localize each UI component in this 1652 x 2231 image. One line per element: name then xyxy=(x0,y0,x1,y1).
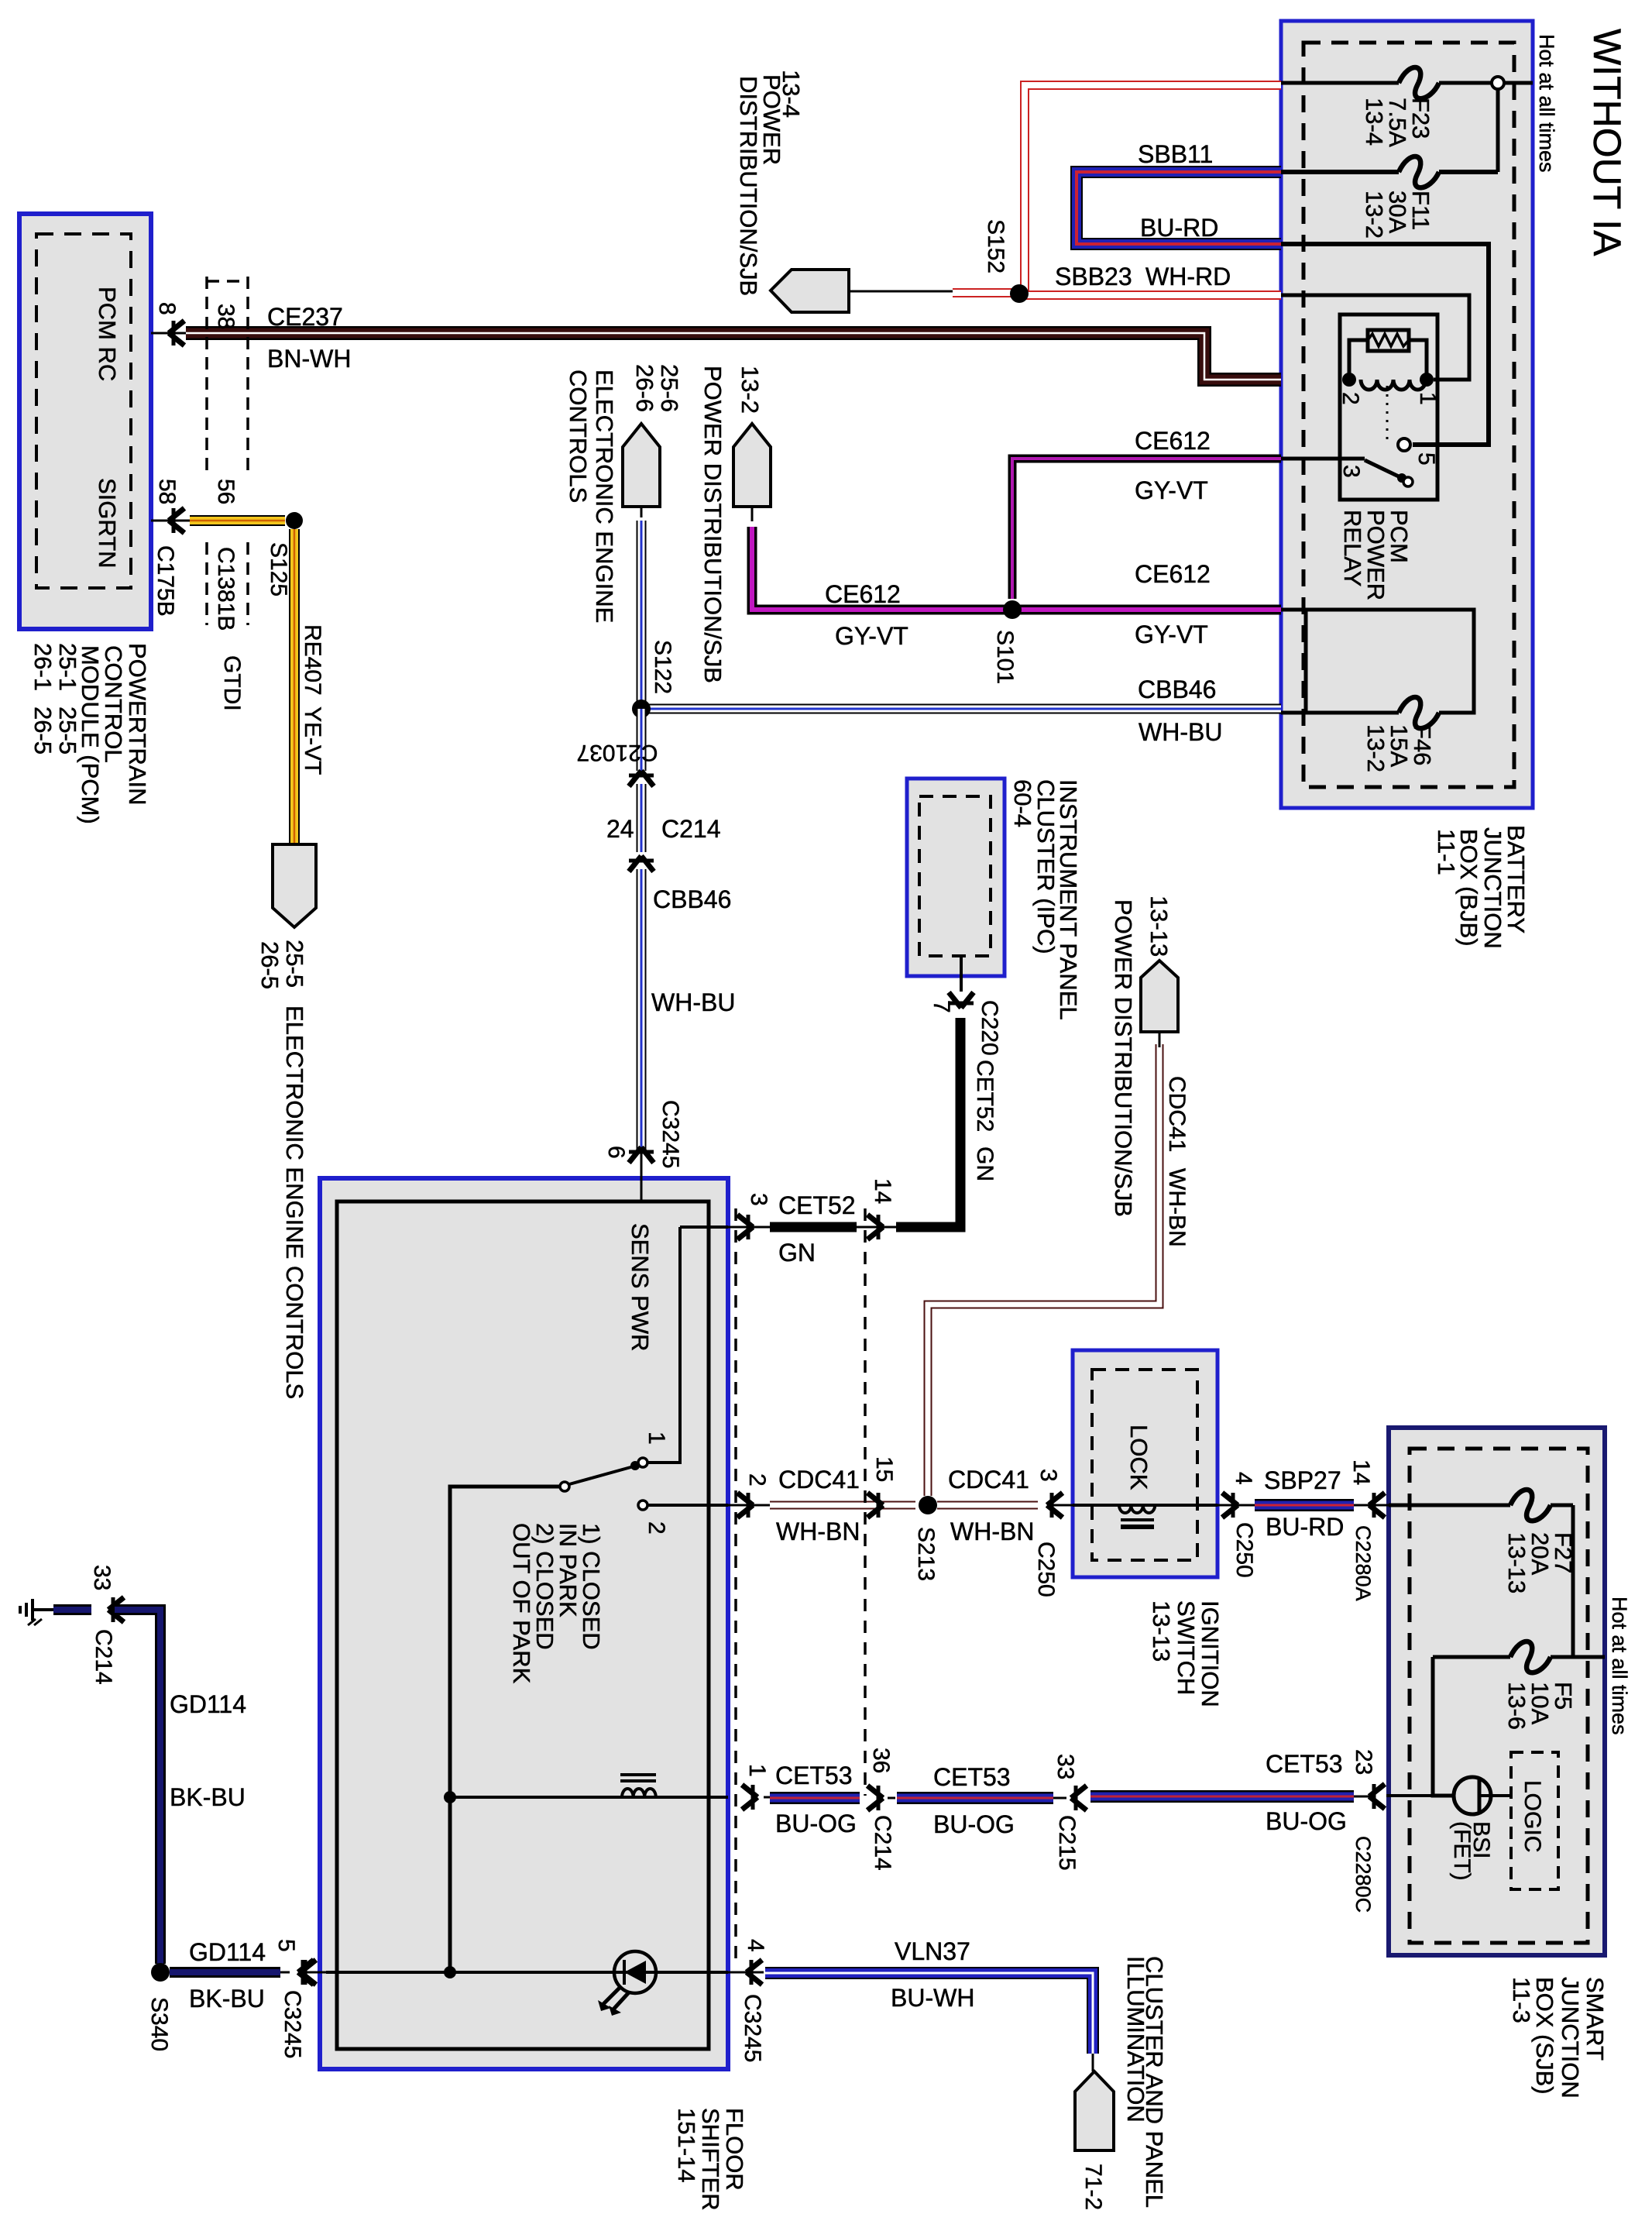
svg-text:25-5: 25-5 xyxy=(54,706,81,755)
svg-text:LOCK: LOCK xyxy=(1125,1425,1152,1490)
svg-text:SBB11: SBB11 xyxy=(1138,140,1213,168)
svg-text:14: 14 xyxy=(870,1178,895,1204)
svg-text:SWITCH: SWITCH xyxy=(1173,1600,1200,1695)
connector arrow C214 pin 33 (GD114) xyxy=(108,1597,124,1622)
LOGIC dashed box xyxy=(1511,1752,1558,1889)
instrument panel cluster box xyxy=(907,779,1005,976)
wire CE237 BN-WH xyxy=(186,333,1281,380)
wire F27 row xyxy=(1389,1504,1510,1507)
connector arrow C2280A pin 14 xyxy=(1354,1504,1369,1507)
wire lock pin4 pilot xyxy=(1218,1504,1255,1507)
wire relay pin5 feed xyxy=(1281,244,1489,445)
svg-text:CBB46: CBB46 xyxy=(1138,675,1216,703)
svg-text:CBB46: CBB46 xyxy=(653,885,731,913)
wire EEC arrow to S122 xyxy=(641,507,643,517)
connector arrow C215 pin 33 xyxy=(1071,1786,1087,1810)
svg-text:13-2: 13-2 xyxy=(1362,724,1389,772)
svg-text:GTDI: GTDI xyxy=(219,655,245,711)
svg-text:60-4: 60-4 xyxy=(1009,779,1036,827)
offpage arrow 71-2 xyxy=(1075,2071,1114,2150)
svg-text:3: 3 xyxy=(1338,465,1364,478)
wire G201 stub xyxy=(53,1604,91,1615)
SJB dashed inner box xyxy=(1410,1449,1588,1943)
connector arrow C250 pin 4 xyxy=(1222,1493,1238,1518)
svg-text:25-1: 25-1 xyxy=(54,643,81,691)
svg-text:RELAY: RELAY xyxy=(1339,510,1366,586)
offpage arrow 13-2 xyxy=(733,424,771,507)
wire CDC41 riser to 13-13 xyxy=(928,1044,1159,1496)
svg-text:BU-RD: BU-RD xyxy=(1266,1513,1344,1541)
svg-text:6: 6 xyxy=(603,1146,629,1159)
svg-text:25-6: 25-6 xyxy=(656,364,683,412)
svg-text:5: 5 xyxy=(1413,452,1439,466)
svg-text:CET53: CET53 xyxy=(1266,1750,1343,1778)
wire shifter pin 2 xyxy=(647,1504,728,1507)
svg-text:C214: C214 xyxy=(661,815,721,843)
wire CBB46 WH-BU horizontal xyxy=(642,704,1281,714)
smart junction box SJB xyxy=(1389,1428,1605,1955)
connector arrow C21037 xyxy=(629,771,654,786)
relay armature dotted link xyxy=(1386,386,1389,442)
svg-text:13-13: 13-13 xyxy=(1503,1532,1530,1593)
svg-text:GD114: GD114 xyxy=(189,1938,266,1966)
svg-text:C214: C214 xyxy=(91,1629,116,1685)
connector arrow C250 pin 3 xyxy=(1047,1493,1063,1518)
connector arrow CDC41 pin 15 xyxy=(867,1493,883,1518)
connector arrow C2280C pin 23 xyxy=(1354,1796,1369,1798)
svg-text:CET53: CET53 xyxy=(933,1763,1011,1791)
svg-text:VLN37: VLN37 xyxy=(895,1937,970,1965)
junction S152 xyxy=(1010,284,1029,303)
svg-text:CDC41: CDC41 xyxy=(1164,1076,1190,1152)
wire F23-F11 link xyxy=(1496,89,1500,172)
svg-text:WH-BU: WH-BU xyxy=(1139,718,1222,746)
wire WH-BU vertical xyxy=(637,709,647,771)
wire SBB11 BU-RD xyxy=(1077,172,1281,244)
svg-text:IGNITION: IGNITION xyxy=(1197,1600,1224,1707)
svg-text:GN: GN xyxy=(972,1146,998,1181)
svg-text:2: 2 xyxy=(1338,392,1363,405)
svg-text:PCM RC: PCM RC xyxy=(94,287,121,381)
wire VLN37 tail xyxy=(1092,2054,1094,2071)
svg-text:33: 33 xyxy=(1053,1754,1078,1779)
svg-text:13-13: 13-13 xyxy=(1148,1600,1175,1662)
svg-text:CDC41: CDC41 xyxy=(778,1466,860,1494)
wire shifter pin2 pilot xyxy=(728,1504,770,1507)
svg-text:BK-BU: BK-BU xyxy=(189,1985,265,2013)
svg-text:C21037: C21037 xyxy=(576,740,658,765)
fuse F27 20A xyxy=(1510,1490,1551,1521)
connector C1381B dashed xyxy=(205,277,208,470)
wire resistor leads xyxy=(1349,340,1368,380)
junction S122 xyxy=(632,700,651,718)
svg-text:C215: C215 xyxy=(1054,1815,1080,1871)
svg-text:ILLUMINATION: ILLUMINATION xyxy=(1122,1956,1149,2123)
svg-text:26-6: 26-6 xyxy=(631,364,658,412)
switch blade xyxy=(569,1466,634,1484)
wire CET53 pilot lines xyxy=(764,1796,770,1799)
switch pole xyxy=(560,1482,569,1491)
svg-text:58: 58 xyxy=(154,479,180,504)
offpage arrow 13-4 xyxy=(771,270,849,312)
svg-text:25-5: 25-5 xyxy=(281,940,308,988)
svg-text:WH-BN: WH-BN xyxy=(950,1518,1034,1545)
relay coil xyxy=(1361,380,1426,390)
wire F5 row xyxy=(1433,1655,1510,1659)
floor shifter inner box xyxy=(337,1201,709,2049)
connector arrow C3245 pin 4 (VLN37) xyxy=(747,1960,762,1985)
wire VLN37 pilot xyxy=(728,1971,764,1974)
svg-text:26-5: 26-5 xyxy=(256,941,283,989)
wire CET52 GN segment 2 xyxy=(896,1018,960,1227)
wire CE612 upper xyxy=(1012,459,1281,599)
fuse F46 15A xyxy=(1399,697,1439,728)
svg-text:FLOOR: FLOOR xyxy=(721,2108,748,2191)
wire CET53 segment 3 xyxy=(1090,1790,1354,1803)
svg-text:36: 36 xyxy=(868,1748,894,1773)
BJB dashed inner box xyxy=(1303,43,1514,787)
svg-text:POWER DISTRIBUTION/SJB: POWER DISTRIBUTION/SJB xyxy=(699,366,726,683)
wire switch pole to lamp bus xyxy=(450,1487,560,1972)
connector arrow C214 pin 36 xyxy=(867,1786,883,1810)
fuse F23 7.5A xyxy=(1399,67,1439,98)
svg-text:56: 56 xyxy=(213,479,239,504)
svg-text:WH-RD: WH-RD xyxy=(1145,263,1231,290)
connector arrow C214 pin 24 xyxy=(629,856,654,871)
svg-text:BU-RD: BU-RD xyxy=(1140,214,1218,242)
svg-text:13-6: 13-6 xyxy=(1503,1682,1530,1730)
svg-text:23: 23 xyxy=(1351,1749,1376,1775)
svg-text:ELECTRONIC ENGINE: ELECTRONIC ENGINE xyxy=(591,370,618,623)
svg-text:POWERTRAIN: POWERTRAIN xyxy=(124,643,151,806)
shifter coil xyxy=(622,1789,656,1797)
connector arrow C220 pin 7 xyxy=(949,992,974,1008)
IPC dashed inner box xyxy=(919,796,991,956)
fuse F11 30A xyxy=(1399,156,1439,187)
svg-text:71-2: 71-2 xyxy=(1080,2164,1106,2210)
svg-text:C2280A: C2280A xyxy=(1351,1525,1375,1601)
wire VLN37 BU-WH xyxy=(765,1973,1093,2054)
terminal circle F23 output xyxy=(1492,77,1504,89)
wire RE407 YE-VT xyxy=(190,515,285,526)
wire shifter LED row xyxy=(326,1971,728,1974)
wire SBB23 WH-RD xyxy=(953,288,1019,297)
svg-text:13-13: 13-13 xyxy=(1145,895,1173,957)
junction S125 xyxy=(286,512,303,529)
svg-text:CET52: CET52 xyxy=(778,1191,856,1219)
svg-text:BU-OG: BU-OG xyxy=(1266,1807,1347,1835)
svg-text:SBP27: SBP27 xyxy=(1264,1466,1341,1494)
svg-text:OUT OF PARK: OUT OF PARK xyxy=(508,1523,535,1684)
svg-text:151-14: 151-14 xyxy=(673,2108,700,2183)
wire relay pin1 feed SBB23 xyxy=(1281,295,1469,380)
svg-text:BN-WH: BN-WH xyxy=(267,345,351,373)
svg-text:C214: C214 xyxy=(870,1815,895,1871)
connector arrow C220 pin 14 (CET52) xyxy=(867,1215,883,1239)
svg-text:2: 2 xyxy=(744,1473,770,1487)
svg-text:C3245: C3245 xyxy=(280,1990,305,2058)
wire CDC41 WH-BN left xyxy=(770,1501,915,1510)
F46 circuit rectangle xyxy=(1281,610,1474,713)
svg-text:11-3: 11-3 xyxy=(1508,1977,1535,2023)
svg-text:C220: C220 xyxy=(977,1000,1002,1056)
connector arrow shifter pin 3 xyxy=(737,1215,753,1239)
wire CET53 segment 1 xyxy=(770,1792,860,1804)
svg-text:GY-VT: GY-VT xyxy=(835,622,908,650)
wire IPC pin 7 lead xyxy=(960,956,963,992)
offpage arrow 25-5 26-5 xyxy=(273,844,316,927)
svg-text:GY-VT: GY-VT xyxy=(1135,620,1208,648)
svg-text:(FET): (FET) xyxy=(1449,1821,1475,1881)
svg-text:13-2: 13-2 xyxy=(737,366,764,414)
svg-text:JUNCTION: JUNCTION xyxy=(1557,1977,1584,2099)
svg-text:38: 38 xyxy=(213,304,239,329)
svg-text:CE612: CE612 xyxy=(825,580,901,608)
svg-text:GD114: GD114 xyxy=(170,1690,246,1718)
svg-text:3: 3 xyxy=(1036,1469,1061,1482)
svg-text:ELECTRONIC ENGINE CONTROLS: ELECTRONIC ENGINE CONTROLS xyxy=(281,1005,308,1399)
svg-text:WH-BN: WH-BN xyxy=(776,1518,860,1545)
svg-text:WH-BU: WH-BU xyxy=(651,988,735,1016)
ground G201 xyxy=(33,1608,53,1611)
connector arrow PCM pin 58 xyxy=(151,520,190,522)
wire CET52 thin pilot xyxy=(728,1226,770,1229)
wire arrow to S152 xyxy=(849,290,953,293)
svg-text:SENS PWR: SENS PWR xyxy=(627,1223,654,1351)
svg-text:BU-WH: BU-WH xyxy=(891,1984,974,2012)
fuse F5 10A xyxy=(1510,1641,1551,1672)
wire shifter coil row xyxy=(450,1796,728,1799)
svg-text:8: 8 xyxy=(154,302,180,315)
wire pin 6 into shifter xyxy=(641,1147,643,1203)
svg-text:C250: C250 xyxy=(1033,1542,1059,1597)
svg-text:1: 1 xyxy=(1415,392,1441,405)
svg-text:POWER DISTRIBUTION/SJB: POWER DISTRIBUTION/SJB xyxy=(1110,899,1137,1217)
wire F5 to BSI xyxy=(1433,1657,1455,1796)
svg-text:CET52: CET52 xyxy=(972,1060,998,1132)
junction S101 xyxy=(1003,600,1022,619)
junction LED tap xyxy=(444,1966,456,1978)
connector arrow CDC41 pin 2 xyxy=(737,1493,753,1518)
svg-text:2: 2 xyxy=(644,1521,669,1535)
connector arrow coil pin 1 xyxy=(742,1785,757,1810)
svg-text:Hot at all times: Hot at all times xyxy=(1535,34,1558,173)
svg-text:BU-OG: BU-OG xyxy=(933,1810,1015,1838)
wire relay pin 3 xyxy=(1281,457,1365,461)
svg-text:YE-VT: YE-VT xyxy=(300,706,325,775)
svg-text:C3245: C3245 xyxy=(658,1100,683,1168)
offpage arrow 25-6 26-6 EEC xyxy=(623,424,660,507)
svg-text:4: 4 xyxy=(743,1939,768,1952)
wire SBP27 BU-RD xyxy=(1255,1499,1354,1511)
svg-text:CONTROLS: CONTROLS xyxy=(565,370,592,503)
wire GD114 bottom run xyxy=(170,1967,280,1978)
relay pin 5 contact xyxy=(1398,438,1410,451)
svg-text:26-1: 26-1 xyxy=(29,643,57,691)
svg-text:BK-BU: BK-BU xyxy=(170,1783,246,1811)
svg-text:7: 7 xyxy=(929,1000,954,1013)
svg-text:SMART: SMART xyxy=(1582,1977,1609,2061)
svg-text:C175B: C175B xyxy=(153,545,178,617)
wire CET53 into SJB xyxy=(1386,1794,1433,1797)
wire SENS PWR net xyxy=(680,1226,728,1229)
PCM module box xyxy=(19,214,151,629)
svg-text:13-2: 13-2 xyxy=(1361,191,1388,239)
relay box xyxy=(1340,315,1437,500)
svg-text:BU-OG: BU-OG xyxy=(775,1810,857,1837)
svg-text:GY-VT: GY-VT xyxy=(1135,476,1208,504)
junction S340 xyxy=(151,1963,170,1982)
transistor BSI FET xyxy=(1454,1777,1491,1814)
LOCK dashed inner box xyxy=(1092,1370,1197,1560)
junction coil tap xyxy=(444,1791,456,1803)
connector arrow C3245 pin 6 xyxy=(629,1147,654,1163)
svg-text:S340: S340 xyxy=(146,1997,172,2051)
junction relay pin 2 xyxy=(1342,373,1356,387)
wire 13-13 arrow tail xyxy=(1159,1032,1161,1047)
svg-text:1: 1 xyxy=(744,1764,770,1777)
wire CET53 segment 2 xyxy=(897,1792,1053,1804)
svg-text:CE237: CE237 xyxy=(267,303,343,331)
junction relay pin 1 xyxy=(1420,373,1434,387)
svg-text:CE612: CE612 xyxy=(1135,560,1211,588)
svg-text:S213: S213 xyxy=(913,1527,939,1581)
svg-text:4: 4 xyxy=(1231,1472,1256,1485)
svg-text:GN: GN xyxy=(778,1239,816,1267)
wire F23 row xyxy=(1281,81,1399,85)
junction S213 xyxy=(919,1496,937,1514)
LED lamp xyxy=(614,1951,656,1993)
svg-text:14: 14 xyxy=(1348,1459,1374,1485)
wire SJB hot bus xyxy=(1571,1505,1575,1657)
wire F11 row xyxy=(1281,170,1399,174)
svg-text:3: 3 xyxy=(746,1193,771,1206)
PCM dashed inner box xyxy=(36,234,131,588)
relay switch blade xyxy=(1365,460,1402,478)
svg-text:C1381B: C1381B xyxy=(213,547,239,631)
resistor in relay xyxy=(1368,330,1409,351)
connector arrow PCM pin 8 xyxy=(151,332,186,335)
switch contact 2 xyxy=(638,1501,647,1510)
svg-text:CDC41: CDC41 xyxy=(948,1466,1029,1494)
svg-text:CE612: CE612 xyxy=(1135,427,1211,455)
svg-text:C250: C250 xyxy=(1231,1522,1257,1578)
wire CET52 GN segment 1 xyxy=(770,1222,857,1232)
connector C3245 dashed line xyxy=(734,1208,737,1968)
connector arrow shifter pin 5 xyxy=(298,1960,314,1985)
battery junction box BJB xyxy=(1281,21,1533,808)
ignition lock box xyxy=(1073,1350,1218,1577)
svg-text:11-1: 11-1 xyxy=(1433,829,1460,875)
svg-text:Hot at all times: Hot at all times xyxy=(1608,1597,1631,1735)
svg-text:1: 1 xyxy=(644,1432,669,1445)
svg-text:33: 33 xyxy=(89,1565,115,1590)
svg-text:WITHOUT IA: WITHOUT IA xyxy=(1585,29,1629,256)
connector arrow C3245 pin 5 xyxy=(280,1971,290,1974)
switch contact 1 xyxy=(638,1458,647,1467)
svg-text:S122: S122 xyxy=(650,640,675,694)
svg-text:SHIFTER: SHIFTER xyxy=(697,2108,724,2211)
wire CDC41 WH-BN right xyxy=(937,1501,1038,1510)
svg-text:LOGIC: LOGIC xyxy=(1520,1780,1545,1852)
svg-text:24: 24 xyxy=(606,815,634,843)
svg-text:S101: S101 xyxy=(992,630,1018,684)
wire GD114 BK-BU vertical xyxy=(115,1610,160,1964)
svg-text:SIGRTN: SIGRTN xyxy=(94,478,121,569)
svg-text:13-4: 13-4 xyxy=(1361,98,1388,146)
offpage arrow 13-13 xyxy=(1141,961,1178,1032)
wire CE612 lower xyxy=(751,507,754,521)
connector C214 dashed line xyxy=(864,1208,867,1796)
svg-text:CET53: CET53 xyxy=(775,1762,853,1789)
lock coil xyxy=(1119,1505,1155,1513)
svg-text:C3245: C3245 xyxy=(740,1994,765,2062)
floor shifter box xyxy=(320,1178,728,2069)
wire through lock xyxy=(1073,1504,1218,1507)
svg-text:WH-BN: WH-BN xyxy=(1164,1168,1190,1247)
svg-text:SBB23: SBB23 xyxy=(1055,263,1132,290)
svg-text:JUNCTION: JUNCTION xyxy=(1479,827,1506,949)
wire contact 1 riser xyxy=(647,1227,680,1463)
svg-text:S125: S125 xyxy=(266,542,291,596)
svg-text:C2280C: C2280C xyxy=(1351,1836,1375,1913)
svg-text:26-5: 26-5 xyxy=(29,706,57,755)
svg-text:RE407: RE407 xyxy=(300,624,325,696)
svg-text:5: 5 xyxy=(273,1939,299,1952)
svg-text:S152: S152 xyxy=(983,219,1008,273)
svg-text:DISTRIBUTION/SJB: DISTRIBUTION/SJB xyxy=(735,76,762,296)
svg-text:15: 15 xyxy=(871,1456,897,1482)
